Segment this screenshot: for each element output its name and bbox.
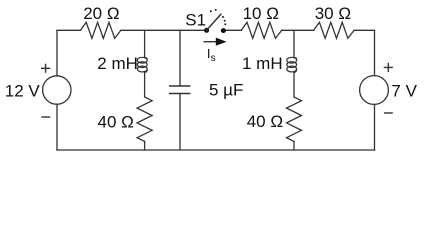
- switch S1 blade: [207, 14, 221, 30]
- plus sign of 12V source: [42, 64, 50, 72]
- svg-text:40 Ω: 40 Ω: [98, 112, 134, 131]
- wire 1mH branch top: [293, 30, 295, 57]
- wire right branch lower: [374, 104, 376, 150]
- svg-text:5 µF: 5 µF: [209, 81, 243, 100]
- resistor 30 ohm: [314, 22, 354, 38]
- resistor 10 ohm: [241, 22, 281, 38]
- switch S1 left contact: [204, 28, 209, 33]
- wire capacitor branch top: [179, 30, 181, 86]
- plus sign of 7V source: [384, 64, 392, 72]
- wire left branch upper: [56, 30, 58, 76]
- switch S1 travel arc dots: [210, 9, 226, 25]
- svg-text:30 Ω: 30 Ω: [315, 4, 351, 23]
- svg-text:S1: S1: [185, 11, 206, 30]
- current arrow Is: [204, 38, 226, 46]
- svg-text:7 V: 7 V: [391, 82, 417, 101]
- inductor 2mH: [137, 57, 147, 72]
- svg-text:Is: Is: [207, 46, 216, 64]
- wire top middle (to switch): [121, 29, 207, 31]
- voltage source 12V: [43, 76, 71, 104]
- wire 1mH to 40 ohm: [293, 73, 295, 98]
- capacitor 5uF top plate: [170, 85, 190, 87]
- voltage source 7V: [360, 76, 389, 105]
- svg-text:2 mH: 2 mH: [97, 54, 138, 73]
- wire top-left horizontal: [57, 29, 81, 31]
- wire 40 ohm right to bottom: [293, 141, 295, 150]
- wire 40 ohm left to bottom: [144, 141, 146, 150]
- svg-text:10 Ω: 10 Ω: [243, 4, 279, 23]
- resistor 20 ohm: [81, 22, 121, 38]
- svg-text:40 Ω: 40 Ω: [247, 112, 283, 131]
- svg-text:1 mH: 1 mH: [242, 54, 283, 73]
- wire from switch to 10 ohm: [223, 29, 241, 31]
- wire top-right horizontal: [354, 29, 374, 31]
- capacitor 5uF bottom plate: [170, 93, 190, 95]
- minus sign of 12V source: [42, 116, 50, 118]
- svg-text:20 Ω: 20 Ω: [83, 4, 119, 23]
- wire right branch upper: [374, 30, 376, 75]
- resistor 40 ohm (left): [137, 97, 152, 141]
- wire between 10 ohm and 30 ohm: [282, 29, 314, 31]
- wire left branch lower: [56, 104, 58, 150]
- wire 2mH branch top: [144, 30, 146, 57]
- svg-text:12 V: 12 V: [5, 82, 41, 101]
- minus sign of 7V source: [385, 112, 393, 114]
- inductor 1mH: [287, 57, 297, 72]
- wire bottom horizontal: [57, 149, 375, 151]
- switch S1 right contact: [221, 28, 226, 33]
- resistor 40 ohm (right): [287, 97, 302, 141]
- wire 2mH to 40 ohm: [144, 73, 146, 98]
- wire capacitor branch bottom: [179, 94, 181, 151]
